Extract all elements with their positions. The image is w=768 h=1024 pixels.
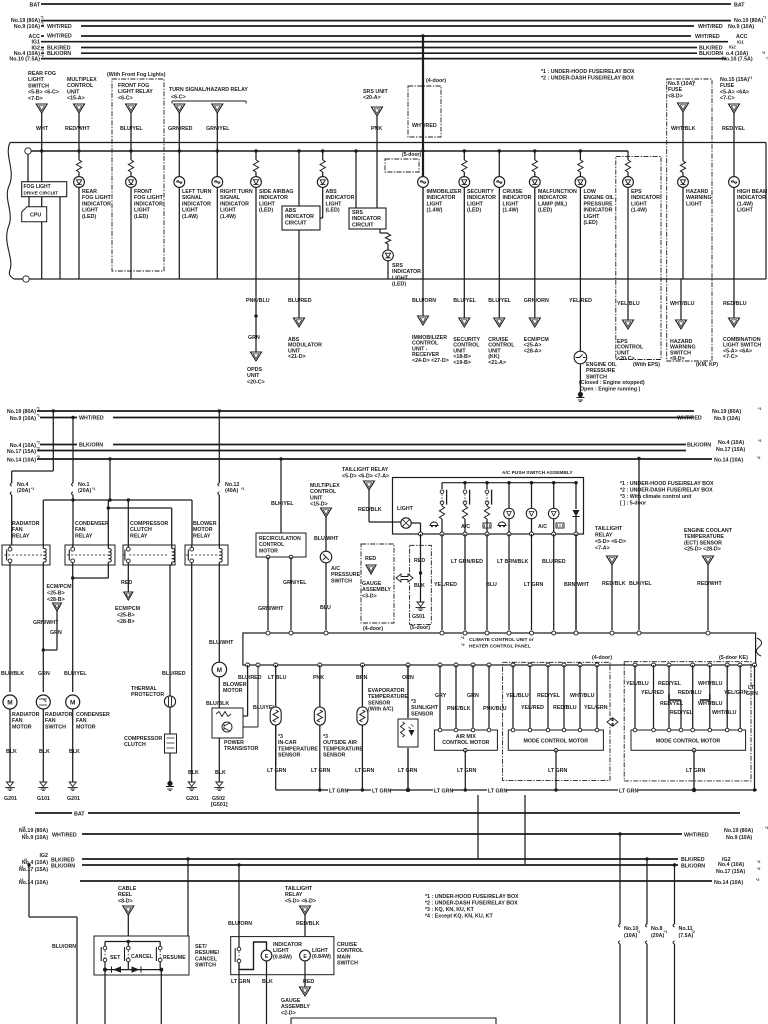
svg-text:<20-A>: <20-A> — [363, 95, 381, 101]
svg-text:*2 : UNDER-DASH FUSE/RELAY BOX: *2 : UNDER-DASH FUSE/RELAY BOX — [541, 76, 634, 82]
svg-text:LIGHT RELAY: LIGHT RELAY — [118, 89, 153, 95]
svg-text:<24-D> <27-D>: <24-D> <27-D> — [412, 358, 449, 364]
svg-text:BLU/WHT: BLU/WHT — [209, 640, 234, 646]
svg-text:LT GRN: LT GRN — [267, 768, 286, 774]
svg-text:LIGHT: LIGHT — [28, 77, 45, 83]
svg-text:<8-D>: <8-D> — [118, 898, 133, 904]
svg-text:CLUTCH: CLUTCH — [124, 742, 146, 748]
svg-text:BLK/ORN: BLK/ORN — [699, 51, 723, 57]
svg-text:MOTOR: MOTOR — [76, 724, 96, 730]
svg-text:<21-A>: <21-A> — [488, 360, 506, 366]
svg-text:[ ] : 5-door: [ ] : 5-door — [620, 501, 646, 507]
svg-text:BLU/RED: BLU/RED — [288, 298, 312, 304]
svg-text:<15-A>: <15-A> — [67, 96, 85, 102]
svg-text:RECIRCULATION: RECIRCULATION — [259, 536, 301, 542]
svg-text:(LED): (LED) — [134, 214, 148, 220]
svg-text:GRN: GRN — [248, 335, 260, 341]
svg-text:IG1: IG1 — [737, 40, 744, 45]
svg-text:WHT: WHT — [36, 126, 49, 132]
svg-text:BLU/ORN: BLU/ORN — [228, 921, 252, 927]
svg-text:INDICATOR: INDICATOR — [326, 195, 355, 201]
svg-text:*2: *2 — [37, 447, 40, 451]
svg-text:BLU/YEL: BLU/YEL — [488, 298, 511, 304]
svg-text:LT GRN: LT GRN — [488, 788, 507, 794]
svg-text:LT BRN/BLK: LT BRN/BLK — [497, 559, 529, 565]
svg-text:<8-D>: <8-D> — [668, 93, 683, 99]
svg-text:INDICATOR: INDICATOR — [273, 942, 302, 948]
svg-text:*2: *2 — [20, 865, 23, 869]
svg-text:FAN: FAN — [45, 718, 56, 724]
svg-text:*1: *1 — [763, 16, 766, 20]
svg-text:RED/WHT: RED/WHT — [65, 126, 90, 132]
svg-text:LT BLU: LT BLU — [268, 675, 287, 681]
svg-text:CONTROL: CONTROL — [259, 542, 284, 548]
svg-text:No.19 (80A): No.19 (80A) — [724, 828, 753, 834]
svg-text:WHT/RED: WHT/RED — [695, 34, 720, 40]
svg-text:No.9 (10A): No.9 (10A) — [714, 416, 740, 422]
svg-text:A/C PUSH SWITCH ASSEMBLY: A/C PUSH SWITCH ASSEMBLY — [502, 470, 573, 476]
svg-text:*3: *3 — [278, 734, 283, 740]
svg-text:PRESSURE: PRESSURE — [586, 368, 616, 374]
svg-text:SENSOR: SENSOR — [368, 700, 391, 706]
svg-text:COMPRESSOR: COMPRESSOR — [124, 736, 162, 742]
svg-text:IG2: IG2 — [39, 853, 48, 859]
svg-text:RESUME: RESUME — [163, 955, 186, 961]
svg-text:RADIATOR: RADIATOR — [12, 712, 40, 718]
svg-text:No.14 (10A): No.14 (10A) — [714, 458, 743, 464]
svg-text:ASSEMBLY: ASSEMBLY — [362, 587, 391, 593]
svg-text:(10A): (10A) — [624, 933, 637, 939]
svg-text:No.19 (80A): No.19 (80A) — [712, 409, 741, 415]
svg-text:DRIVE CIRCUIT: DRIVE CIRCUIT — [24, 190, 59, 195]
svg-text:SENSOR: SENSOR — [278, 753, 301, 759]
svg-text:UNIT: UNIT — [247, 373, 260, 379]
svg-text:(0.84W): (0.84W) — [312, 954, 331, 960]
svg-text:(LED): (LED) — [467, 208, 481, 214]
svg-text:RED/YEL: RED/YEL — [537, 693, 561, 699]
svg-text:LIGHT: LIGHT — [259, 201, 276, 207]
svg-text:No.4 (10A): No.4 (10A) — [718, 440, 744, 446]
svg-text:BLU/BLK: BLU/BLK — [206, 701, 229, 707]
svg-text:BLU: BLU — [320, 605, 331, 611]
svg-text:SRS: SRS — [352, 210, 363, 216]
svg-text:ABS: ABS — [326, 189, 338, 195]
svg-text:HIGH BEAM: HIGH BEAM — [737, 189, 768, 195]
svg-text:TEMPERATURE: TEMPERATURE — [278, 746, 318, 752]
svg-text:INDICATOR: INDICATOR — [503, 195, 532, 201]
svg-text:RED: RED — [365, 556, 376, 562]
svg-text:TAILLIGHT: TAILLIGHT — [595, 526, 623, 532]
svg-text:WHT/RED: WHT/RED — [412, 123, 437, 129]
svg-text:PROTECTOR: PROTECTOR — [131, 692, 164, 698]
svg-text:BLK/ORN: BLK/ORN — [681, 864, 705, 870]
svg-text:IMMOBILIZER: IMMOBILIZER — [427, 189, 462, 195]
svg-text:FOG LIGHT: FOG LIGHT — [134, 195, 164, 201]
svg-text:*2: *2 — [24, 858, 27, 862]
svg-text:<7-C>: <7-C> — [723, 354, 738, 360]
svg-text:(4-door): (4-door) — [426, 78, 446, 84]
svg-text:No.4 (10A): No.4 (10A) — [718, 862, 744, 868]
svg-text:CLIMATE CONTROL UNIT or: CLIMATE CONTROL UNIT or — [469, 637, 534, 643]
svg-text:<15-D>: <15-D> — [310, 502, 328, 508]
svg-text:(4-door): (4-door) — [592, 655, 612, 661]
svg-text:<6-C>: <6-C> — [171, 95, 186, 101]
svg-text:RED/BLU: RED/BLU — [723, 301, 747, 307]
svg-text:SWITCH: SWITCH — [337, 961, 358, 967]
svg-text:*2: *2 — [41, 54, 44, 58]
svg-text:RED/BLK: RED/BLK — [358, 507, 382, 513]
svg-text:WHT/BLU: WHT/BLU — [698, 701, 723, 707]
svg-text:RELAY: RELAY — [595, 533, 613, 539]
svg-text:*1: *1 — [92, 487, 95, 491]
svg-text:RADIATOR: RADIATOR — [12, 521, 40, 527]
svg-text:MULTIPLEX: MULTIPLEX — [310, 483, 340, 489]
svg-text:BLU/WHT: BLU/WHT — [314, 536, 339, 542]
svg-text:*1: *1 — [24, 833, 27, 837]
svg-text:BLK/YEL: BLK/YEL — [271, 501, 294, 507]
svg-text:MOTOR: MOTOR — [259, 548, 278, 554]
svg-text:GRY: GRY — [435, 693, 447, 699]
svg-text:LIGHT: LIGHT — [631, 201, 648, 207]
svg-text:TEMPERATURE: TEMPERATURE — [684, 534, 724, 540]
svg-text:<25-D> <28-D>: <25-D> <28-D> — [684, 547, 721, 553]
svg-text:*2: *2 — [757, 860, 760, 864]
svg-text:*1: *1 — [41, 22, 44, 26]
svg-text:RELAY: RELAY — [130, 533, 148, 539]
svg-text:WHT/BLU: WHT/BLU — [570, 693, 595, 699]
svg-text:RELAY: RELAY — [285, 892, 303, 898]
svg-text:CONDENSER: CONDENSER — [76, 712, 110, 718]
svg-text:ECM/PCM: ECM/PCM — [115, 606, 141, 612]
svg-text:GRN/ORN: GRN/ORN — [524, 298, 549, 304]
svg-text:(1.4W): (1.4W) — [182, 214, 198, 220]
svg-text:GAUGE: GAUGE — [362, 581, 382, 587]
svg-text:WHT/RED: WHT/RED — [52, 833, 77, 839]
svg-text:LIGHT: LIGHT — [392, 275, 409, 281]
svg-text:LT GRN: LT GRN — [329, 788, 348, 794]
svg-text:Open : Engine running ): Open : Engine running ) — [580, 387, 641, 393]
svg-text:CIRCUIT: CIRCUIT — [285, 220, 307, 226]
svg-text:SWITCH: SWITCH — [331, 578, 352, 584]
svg-text:BAT: BAT — [30, 3, 41, 9]
svg-text:BLU/YEL: BLU/YEL — [120, 126, 143, 132]
svg-text:LT GRN: LT GRN — [434, 788, 453, 794]
svg-text:*2: *2 — [37, 455, 40, 459]
svg-text:(20A): (20A) — [17, 488, 30, 494]
svg-text:CABLE: CABLE — [118, 886, 137, 892]
svg-text:*3: *3 — [22, 826, 25, 830]
svg-text:YEL/GRN: YEL/GRN — [584, 705, 608, 711]
svg-text:ENGINE OIL: ENGINE OIL — [586, 362, 617, 368]
svg-text:TAILLIGHT RELAY: TAILLIGHT RELAY — [342, 467, 389, 473]
svg-text:BLK: BLK — [188, 770, 199, 776]
svg-text:LT GRN: LT GRN — [457, 768, 476, 774]
svg-text:ASSEMBLY: ASSEMBLY — [281, 1004, 310, 1010]
svg-text:PNK: PNK — [313, 675, 324, 681]
svg-text:LIGHT: LIGHT — [467, 201, 484, 207]
svg-text:CRUISE: CRUISE — [503, 189, 523, 195]
svg-text:RED/BLU: RED/BLU — [553, 705, 577, 711]
svg-text:*1 : UNDER-HOOD FUSE/RELAY BOX: *1 : UNDER-HOOD FUSE/RELAY BOX — [541, 69, 635, 75]
svg-text:BLK: BLK — [215, 770, 226, 776]
svg-text:GRN/WHT: GRN/WHT — [33, 620, 59, 626]
svg-text:BRN: BRN — [356, 675, 368, 681]
svg-text:No.9 (10A): No.9 (10A) — [14, 24, 40, 30]
svg-text:INDICATOR: INDICATOR — [427, 195, 456, 201]
svg-text:RED/YEL: RED/YEL — [660, 701, 684, 707]
svg-text:CONTROL: CONTROL — [337, 948, 364, 954]
svg-text:*2: *2 — [41, 49, 44, 53]
svg-text:SWITCH: SWITCH — [28, 83, 49, 89]
svg-text:LOW: LOW — [584, 189, 596, 195]
svg-text:(LED): (LED) — [392, 282, 406, 288]
svg-text:*1: *1 — [637, 930, 640, 934]
svg-text:A/C: A/C — [461, 524, 470, 530]
svg-text:IN-CAR: IN-CAR — [278, 740, 297, 746]
svg-text:RED/YEL: RED/YEL — [658, 681, 682, 687]
svg-text:<20-C>: <20-C> — [247, 379, 265, 385]
svg-text:SWITCH: SWITCH — [45, 724, 66, 730]
svg-text:FOG LIGHT: FOG LIGHT — [82, 195, 112, 201]
svg-text:THERMAL: THERMAL — [131, 686, 158, 692]
svg-text:LAMP (MIL): LAMP (MIL) — [538, 201, 567, 207]
svg-text:FRONT FOG: FRONT FOG — [118, 83, 149, 89]
svg-text:SIGNAL: SIGNAL — [220, 195, 241, 201]
svg-text:SUNLIGHT: SUNLIGHT — [411, 705, 439, 711]
svg-text:M: M — [7, 699, 12, 706]
svg-text:PRESSURE: PRESSURE — [584, 201, 614, 207]
svg-text:BLU/YEL: BLU/YEL — [64, 671, 87, 677]
svg-text:No.19 (80A): No.19 (80A) — [7, 409, 36, 415]
svg-text:G201: G201 — [4, 796, 17, 802]
svg-text:RED: RED — [121, 580, 132, 586]
svg-text:A/C: A/C — [538, 524, 547, 530]
svg-text:[G501]: [G501] — [211, 802, 228, 808]
svg-text:(Closed : Engine stopped): (Closed : Engine stopped) — [579, 380, 645, 386]
svg-text:WHT/RED: WHT/RED — [79, 416, 104, 422]
svg-text:*2: *2 — [37, 441, 40, 445]
svg-text:RED/WHT: RED/WHT — [697, 581, 722, 587]
svg-text:*1: *1 — [749, 76, 752, 80]
svg-text:HEATER CONTROL PANEL: HEATER CONTROL PANEL — [469, 644, 531, 650]
svg-text:G201: G201 — [67, 796, 80, 802]
svg-text:(1.4W): (1.4W) — [631, 208, 647, 214]
svg-text:MALFUNCTION: MALFUNCTION — [538, 189, 577, 195]
svg-text:BLK: BLK — [414, 583, 425, 589]
svg-text:No.9 (10A): No.9 (10A) — [728, 24, 754, 30]
svg-text:EPS: EPS — [631, 189, 642, 195]
svg-text:<21-D>: <21-D> — [288, 354, 306, 360]
svg-text:INDICATOR: INDICATOR — [134, 201, 163, 207]
svg-text:*2: *2 — [692, 930, 695, 934]
svg-text:M: M — [217, 667, 222, 674]
svg-text:CRUISE: CRUISE — [337, 942, 357, 948]
svg-text:RELAY: RELAY — [193, 533, 211, 539]
svg-text:BLK: BLK — [262, 979, 273, 985]
svg-text:*2 : UNDER-DASH FUSE/RELAY B: *2 : UNDER-DASH FUSE/RELAY BOX — [620, 488, 713, 494]
svg-text:UNIT: UNIT — [67, 89, 80, 95]
svg-text:LIGHT: LIGHT — [503, 201, 520, 207]
svg-text:CONTROL MOTOR: CONTROL MOTOR — [442, 740, 489, 746]
svg-text:<7-A>: <7-A> — [595, 546, 610, 552]
svg-text:(40A): (40A) — [225, 488, 238, 494]
svg-text:ABS: ABS — [285, 208, 297, 214]
svg-text:GRN: GRN — [50, 630, 62, 636]
svg-text:WARNING: WARNING — [686, 195, 712, 201]
svg-text:<8-D>: <8-D> — [670, 356, 685, 362]
svg-text:LIGHT: LIGHT — [737, 208, 754, 214]
svg-text:No.9 (10A): No.9 (10A) — [10, 416, 36, 422]
svg-text:BLK/ORN: BLK/ORN — [51, 864, 75, 870]
svg-text:(ECT) SENSOR: (ECT) SENSOR — [684, 540, 722, 546]
svg-text:WHT/BLU: WHT/BLU — [712, 710, 737, 716]
svg-text:RED/BLU: RED/BLU — [678, 690, 702, 696]
svg-text:(With Front Fog Lights): (With Front Fog Lights) — [107, 72, 166, 78]
svg-text:UNIT: UNIT — [310, 495, 323, 501]
svg-text:YEL/BLU: YEL/BLU — [506, 693, 529, 699]
svg-text:(With A/C): (With A/C) — [368, 707, 394, 713]
svg-text:SIDE AIRBAG: SIDE AIRBAG — [259, 189, 294, 195]
svg-text:(5-door): (5-door) — [410, 625, 430, 631]
svg-text:No.8: No.8 — [651, 926, 663, 932]
svg-text:YEL/BLU: YEL/BLU — [626, 681, 649, 687]
svg-text:TEMPERATURE: TEMPERATURE — [368, 694, 408, 700]
svg-text:*4 : Except KQ, KN, KU, KT: *4 : Except KQ, KN, KU, KT — [425, 914, 493, 920]
svg-text:BLK: BLK — [6, 749, 17, 755]
svg-text:BLK: BLK — [39, 749, 50, 755]
svg-text:*2: *2 — [20, 878, 23, 882]
svg-text:G101: G101 — [37, 796, 50, 802]
svg-text:<19-B>: <19-B> — [453, 360, 471, 366]
svg-text:CONDENSER: CONDENSER — [75, 521, 109, 527]
svg-text:No.10 (7.5A): No.10 (7.5A) — [722, 57, 753, 63]
svg-text:<3-D>: <3-D> — [362, 593, 377, 599]
svg-text:No.15 (15A): No.15 (15A) — [720, 77, 749, 83]
svg-text:MODE CONTROL MOTOR: MODE CONTROL MOTOR — [656, 739, 721, 745]
svg-text:LIGHT: LIGHT — [220, 208, 237, 214]
svg-text:INDICATOR: INDICATOR — [220, 201, 249, 207]
svg-text:SRS UNIT: SRS UNIT — [363, 89, 388, 95]
svg-text:(LED): (LED) — [538, 208, 552, 214]
svg-text:MOTOR: MOTOR — [12, 724, 32, 730]
svg-text:ENGINE COOLANT: ENGINE COOLANT — [684, 528, 733, 534]
svg-text:EVAPORATOR: EVAPORATOR — [368, 688, 405, 694]
svg-text:YEL/RED: YEL/RED — [521, 705, 544, 711]
svg-text:BLU: BLU — [486, 582, 497, 588]
svg-text:*3 : KQ, KN, KU, KT: *3 : KQ, KN, KU, KT — [425, 907, 475, 913]
svg-text:(LED): (LED) — [259, 208, 273, 214]
svg-text:RED/BLK: RED/BLK — [296, 921, 320, 927]
svg-text:GAUGE: GAUGE — [281, 998, 301, 1004]
svg-text:*1: *1 — [37, 407, 40, 411]
svg-text:<2-D>: <2-D> — [281, 1010, 296, 1016]
svg-text:SWITCH: SWITCH — [195, 963, 216, 969]
svg-text:TAILLIGHT: TAILLIGHT — [285, 886, 313, 892]
svg-text:SENSOR: SENSOR — [323, 753, 346, 759]
svg-text:BAT: BAT — [734, 3, 745, 9]
svg-text:SIGNAL: SIGNAL — [182, 195, 203, 201]
svg-text:LIGHT: LIGHT — [182, 208, 199, 214]
svg-text:LT GRN: LT GRN — [524, 582, 543, 588]
svg-text:HAZARD: HAZARD — [686, 189, 709, 195]
svg-text:LEFT TURN: LEFT TURN — [182, 189, 212, 195]
svg-text:WHT/RED: WHT/RED — [684, 833, 709, 839]
svg-text:<28-B>: <28-B> — [117, 619, 135, 625]
svg-text:INDICATOR: INDICATOR — [467, 195, 496, 201]
svg-text:*1: *1 — [664, 930, 667, 934]
svg-text:*3 : With climate control un: *3 : With climate control unit — [620, 494, 692, 500]
svg-text:No.19 (80A): No.19 (80A) — [734, 18, 763, 24]
svg-text:*1: *1 — [241, 487, 244, 491]
svg-text:SET/: SET/ — [195, 944, 207, 950]
svg-text:*2: *2 — [757, 867, 760, 871]
svg-text:BLU/RED: BLU/RED — [162, 671, 186, 677]
svg-text:FAN: FAN — [76, 718, 87, 724]
svg-text:PNK/BLK: PNK/BLK — [447, 706, 471, 712]
svg-text:INDICATOR: INDICATOR — [82, 201, 111, 207]
svg-text:WHT/RED: WHT/RED — [47, 34, 72, 40]
svg-text:ECM/PCM: ECM/PCM — [47, 584, 73, 590]
svg-text:INDICATOR: INDICATOR — [584, 208, 613, 214]
svg-text:(0.84W): (0.84W) — [273, 954, 292, 960]
svg-text:CIRCUIT: CIRCUIT — [352, 222, 374, 228]
svg-text:BLU/BLK: BLU/BLK — [1, 671, 24, 677]
svg-text:<5-D> <6-D>: <5-D> <6-D> — [595, 539, 626, 545]
svg-text:*1: *1 — [31, 487, 34, 491]
svg-text:PRESSURE: PRESSURE — [331, 572, 361, 578]
svg-text:<28-A>: <28-A> — [524, 348, 542, 354]
svg-text:(5-door): (5-door) — [402, 152, 422, 158]
svg-text:COMPRESSOR: COMPRESSOR — [130, 521, 168, 527]
svg-text:RED/YEL: RED/YEL — [670, 710, 694, 716]
svg-text:WHT/RED: WHT/RED — [698, 24, 723, 30]
svg-text:No.5 (10A): No.5 (10A) — [668, 81, 694, 87]
svg-text:LT GRN: LT GRN — [231, 979, 250, 985]
svg-text:(LED): (LED) — [326, 208, 340, 214]
svg-text:No.17 (15A): No.17 (15A) — [716, 447, 745, 453]
svg-text:CLUTCH: CLUTCH — [130, 527, 152, 533]
svg-text:BLU/ORN: BLU/ORN — [52, 944, 76, 950]
svg-text:<6-C>: <6-C> — [118, 95, 133, 101]
svg-text:No.10 (7.5A): No.10 (7.5A) — [9, 57, 40, 63]
svg-text:(20A): (20A) — [651, 933, 664, 939]
svg-text:CANCEL: CANCEL — [131, 954, 154, 960]
svg-text:INDICATOR: INDICATOR — [182, 201, 211, 207]
svg-text:LIGHT: LIGHT — [134, 208, 151, 214]
svg-text:FAN: FAN — [75, 527, 86, 533]
svg-text:REAR: REAR — [82, 189, 97, 195]
svg-text:*1: *1 — [758, 407, 761, 411]
svg-text:(1.4W): (1.4W) — [427, 208, 443, 214]
svg-text:*1 : UNDER-HOOD FUSE/RELAY BOX: *1 : UNDER-HOOD FUSE/RELAY BOX — [425, 894, 519, 900]
svg-text:RELAY: RELAY — [12, 533, 30, 539]
svg-text:RED: RED — [414, 558, 425, 564]
svg-text:RED/BLK: RED/BLK — [602, 581, 626, 587]
svg-text:LIGHT: LIGHT — [326, 201, 343, 207]
svg-text:MODE CONTROL MOTOR: MODE CONTROL MOTOR — [524, 739, 589, 745]
svg-text:INDICATOR: INDICATOR — [259, 195, 288, 201]
svg-text:(20A): (20A) — [78, 488, 91, 494]
svg-text:A/C: A/C — [331, 566, 340, 572]
svg-text:No.17 (15A): No.17 (15A) — [716, 869, 745, 875]
svg-text:OUTSIDE AIR: OUTSIDE AIR — [323, 740, 357, 746]
svg-text:*1: *1 — [37, 414, 40, 418]
svg-text:LIGHT: LIGHT — [397, 506, 414, 512]
svg-text:RESUME/: RESUME/ — [195, 950, 220, 956]
svg-text:WHT/BLU: WHT/BLU — [698, 681, 723, 687]
svg-text:(1.4W): (1.4W) — [220, 214, 236, 220]
svg-text:REEL: REEL — [118, 892, 133, 898]
